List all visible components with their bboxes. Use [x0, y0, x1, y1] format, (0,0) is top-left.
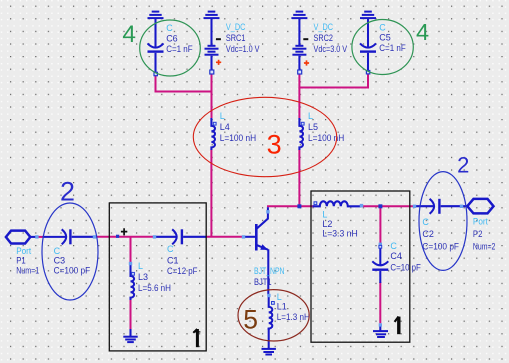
- svg-text:C6: C6: [166, 34, 178, 44]
- svg-text:C: C: [422, 217, 429, 227]
- svg-text:L=100 nH: L=100 nH: [220, 133, 256, 143]
- svg-text:C: C: [390, 241, 397, 251]
- svg-text:C=100 pF: C=100 pF: [422, 242, 459, 252]
- svg-text:Port: Port: [16, 246, 31, 256]
- svg-text:L=1.3 nH: L=1.3 nH: [277, 312, 310, 322]
- svg-text:SRC2: SRC2: [314, 33, 334, 43]
- svg-text:BJT_NPN: BJT_NPN: [254, 266, 285, 276]
- svg-text:L=5.6 nH: L=5.6 nH: [138, 283, 171, 293]
- svg-text:C: C: [54, 246, 61, 256]
- svg-text:C=100 pF: C=100 pF: [54, 266, 91, 276]
- svg-text:5: 5: [243, 305, 258, 335]
- svg-text:Num=2: Num=2: [473, 242, 496, 252]
- svg-text:C=10 pF: C=10 pF: [390, 263, 421, 273]
- svg-text:L=100 nH: L=100 nH: [308, 133, 344, 143]
- svg-text:BJT1: BJT1: [254, 277, 272, 287]
- svg-text:C5: C5: [379, 33, 391, 43]
- svg-text:C=1 nF: C=1 nF: [166, 44, 193, 54]
- svg-text:C1: C1: [167, 256, 179, 266]
- svg-text:4: 4: [122, 21, 136, 48]
- svg-text:L5: L5: [308, 122, 318, 132]
- svg-text:L: L: [220, 111, 225, 121]
- svg-text:C4: C4: [390, 251, 402, 261]
- svg-text:4: 4: [416, 19, 429, 45]
- svg-text:L=3.3 nH: L=3.3 nH: [322, 229, 357, 239]
- svg-text:L2: L2: [322, 219, 332, 229]
- svg-text:L: L: [277, 292, 282, 302]
- svg-text:L: L: [138, 261, 143, 271]
- svg-text:3: 3: [267, 129, 282, 159]
- svg-text:C2: C2: [422, 229, 434, 239]
- svg-text:C=12 pF: C=12 pF: [167, 266, 198, 276]
- svg-text:L: L: [322, 210, 327, 220]
- svg-text:V_DC: V_DC: [226, 22, 246, 32]
- svg-text:2: 2: [457, 153, 469, 178]
- svg-text:L1: L1: [277, 302, 287, 312]
- svg-text:Num=1: Num=1: [16, 266, 39, 276]
- svg-text:C=1 nF: C=1 nF: [379, 43, 406, 53]
- svg-text:Vdc=3.0 V: Vdc=3.0 V: [314, 44, 348, 54]
- svg-text:C: C: [167, 244, 174, 254]
- svg-text:C: C: [166, 23, 173, 33]
- svg-text:2: 2: [60, 176, 75, 206]
- svg-text:P2: P2: [473, 229, 483, 239]
- svg-text:L4: L4: [220, 122, 230, 132]
- svg-text:Vdc=1.0 V: Vdc=1.0 V: [226, 44, 260, 54]
- svg-text:V_DC: V_DC: [314, 22, 334, 32]
- svg-text:Port: Port: [473, 217, 488, 227]
- svg-text:C: C: [379, 23, 386, 33]
- svg-text:L: L: [308, 111, 313, 121]
- svg-text:P1: P1: [16, 256, 26, 266]
- svg-text:L3: L3: [138, 272, 148, 282]
- svg-text:SRC1: SRC1: [226, 33, 246, 43]
- svg-text:C3: C3: [54, 256, 66, 266]
